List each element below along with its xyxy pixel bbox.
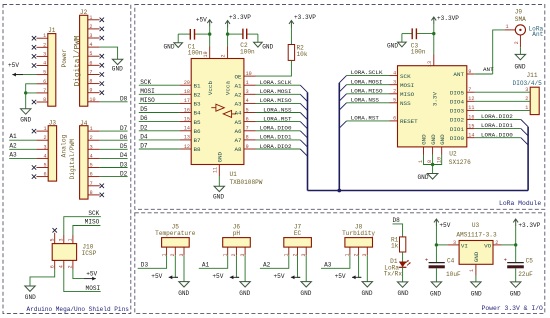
- svg-text:ANT: ANT: [483, 66, 494, 73]
- U2 pin SCK: [390, 75, 398, 77]
- svg-text:Arduino Mega/Uno Shield Pins: Arduino Mega/Uno Shield Pins: [27, 306, 130, 313]
- svg-text:DIO1: DIO1: [450, 126, 465, 133]
- J10 pin 5 stub: [54, 233, 56, 244]
- svg-text:B8: B8: [194, 146, 202, 153]
- wire U3 GND to ground: [475, 276, 477, 282]
- svg-text:B6: B6: [194, 128, 202, 135]
- svg-text:7: 7: [468, 87, 471, 93]
- svg-text:A5: A5: [235, 119, 243, 126]
- J1 pin 3: [37, 55, 48, 57]
- svg-text:LORA.MISO: LORA.MISO: [351, 87, 383, 94]
- U1 pin OE: [244, 75, 256, 77]
- svg-text:Temperature: Temperature: [155, 230, 196, 237]
- svg-text:2: 2: [221, 54, 227, 57]
- svg-text:8: 8: [90, 190, 93, 196]
- svg-text:B5: B5: [194, 119, 202, 126]
- svg-text:7: 7: [246, 126, 249, 132]
- svg-text:15: 15: [468, 123, 474, 129]
- svg-text:3: 3: [43, 51, 46, 57]
- ground (J10 pin6): [25, 286, 35, 291]
- svg-text:13: 13: [427, 61, 433, 67]
- svg-text:GND: GND: [421, 134, 428, 145]
- wire J5 pin2 to +5V: [175, 255, 178, 277]
- svg-text:11: 11: [212, 167, 218, 173]
- svg-text:SX1276: SX1276: [449, 159, 471, 166]
- svg-text:3: 3: [89, 33, 92, 39]
- wire J4 pin 1 net D7: [100, 130, 128, 132]
- wire U2 LORA.DIO1: [475, 128, 521, 130]
- bus entry LORA.DIO1: [521, 129, 528, 136]
- svg-text:+3.3VP: +3.3VP: [518, 222, 540, 229]
- U2 pin DIO0: [467, 137, 475, 139]
- bus entry LORA.MISO (U2 side): [339, 94, 346, 101]
- wire +3.3VP to VCCA: [227, 28, 229, 47]
- svg-text:3: 3: [525, 87, 528, 93]
- connector J10 ICSP: [52, 244, 76, 261]
- svg-text:D7: D7: [140, 143, 148, 150]
- wire J8 pin1 net A3: [321, 255, 350, 268]
- no-connect J1 pin 3: [32, 54, 36, 58]
- U2 pin DIO2: [467, 119, 475, 121]
- svg-text:17: 17: [184, 98, 190, 104]
- J1 pin 8: [37, 101, 48, 103]
- svg-text:GND: GND: [430, 134, 437, 145]
- section box: LoRa Module: [135, 5, 545, 210]
- svg-text:Turbidity: Turbidity: [342, 230, 375, 237]
- svg-text:22uF: 22uF: [518, 271, 533, 278]
- U2 pin GND 10: [441, 147, 443, 155]
- J4 pin 7: [88, 185, 100, 187]
- svg-text:ANT: ANT: [453, 71, 464, 78]
- wire J4 pin 5 net D3: [100, 167, 128, 169]
- svg-text:GND: GND: [178, 290, 189, 297]
- wire U1 A5 net LORA.RST: [256, 121, 301, 123]
- U2 pin DIO3: [467, 109, 475, 111]
- svg-text:DIO5: DIO5: [450, 89, 465, 96]
- svg-text:D5: D5: [120, 143, 128, 150]
- J1 pin 4: [37, 65, 48, 67]
- ground (C4): [431, 282, 441, 287]
- bus junction: [337, 189, 341, 193]
- J1 pin 1: [37, 37, 48, 39]
- svg-text:D2: D2: [140, 124, 148, 131]
- svg-text:DIO0: DIO0: [450, 135, 465, 142]
- svg-text:VI: VI: [461, 243, 468, 250]
- wire J5 pin1 net D3: [138, 255, 167, 268]
- svg-text:5: 5: [90, 163, 93, 169]
- bus entry LORA.MOSI (U2 side): [339, 85, 346, 92]
- svg-text:GND: GND: [418, 174, 429, 181]
- svg-text:A2: A2: [263, 262, 271, 269]
- power +3.3VP (R2): [289, 21, 294, 28]
- capacitor C2: [228, 33, 243, 35]
- svg-text:GND: GND: [362, 290, 373, 297]
- svg-text:+5V: +5V: [274, 273, 285, 280]
- svg-text:2: 2: [525, 96, 528, 102]
- J3 pin 6: [36, 176, 48, 178]
- wire J1 pin5 to +5V: [15, 74, 37, 76]
- U1 pin B1: [180, 84, 192, 86]
- J2 pin 4: [88, 46, 100, 48]
- connector J5 Temperature: [162, 238, 190, 248]
- svg-text:MISO: MISO: [85, 219, 100, 226]
- svg-text:A2: A2: [9, 142, 17, 149]
- svg-text:4: 4: [393, 70, 396, 76]
- svg-text:Tx/Rx: Tx/Rx: [384, 270, 403, 277]
- bus entry LORA.MISO (U1 side): [300, 103, 307, 110]
- wire U2 ANT to J9: [475, 73, 493, 75]
- svg-text:D8: D8: [393, 217, 401, 224]
- bus entry LORA.DIO1 (U1 side): [300, 140, 307, 147]
- bus entry LORA.DIO0 (U1 side): [300, 131, 307, 138]
- J2 pin 8: [88, 83, 100, 85]
- U1 pin B7: [180, 139, 192, 141]
- hierarchical label +5V (J6): [230, 276, 239, 278]
- svg-text:20: 20: [184, 80, 190, 86]
- svg-text:+5V: +5V: [212, 273, 223, 280]
- U1 pin B6: [180, 130, 192, 132]
- J2 pin 7: [88, 74, 100, 76]
- svg-text:8: 8: [43, 97, 46, 103]
- svg-text:Digital/PWM: Digital/PWM: [69, 139, 76, 180]
- J7 pin 3: [305, 247, 307, 255]
- no-connect J3 pin 6: [32, 174, 36, 178]
- no-connect J1 pin 8: [32, 100, 36, 104]
- svg-text:10: 10: [89, 97, 95, 103]
- svg-text:Analog: Analog: [61, 134, 68, 157]
- bus entry LORA.SCLK (U2 side): [339, 76, 346, 83]
- ground (C3): [398, 42, 407, 47]
- bus horizontal bottom: [308, 190, 529, 192]
- svg-text:1: 1: [68, 238, 74, 241]
- level shifter U1: [191, 59, 244, 165]
- svg-text:LORA.RST: LORA.RST: [263, 115, 292, 122]
- wire J8 pin2 to +5V: [359, 255, 362, 277]
- svg-text:A7: A7: [235, 137, 243, 144]
- svg-text:4: 4: [59, 265, 65, 268]
- svg-text:LORA.SCLK: LORA.SCLK: [351, 69, 383, 76]
- svg-text:+5V: +5V: [335, 273, 346, 280]
- svg-text:SCK: SCK: [400, 73, 411, 80]
- wire J5 pin3 to ground: [183, 255, 185, 281]
- ground (J2 pin4): [112, 59, 122, 64]
- wire J6 pin1 net A1: [199, 255, 228, 268]
- wire J1 pin7 to GND: [26, 93, 37, 109]
- svg-text:2: 2: [90, 135, 93, 141]
- U1 pin A8: [244, 148, 256, 150]
- power +5V (U3): [434, 219, 439, 226]
- U1 pin A3: [244, 102, 256, 104]
- U2 pin RESET: [390, 120, 398, 122]
- svg-text:GND: GND: [398, 290, 409, 297]
- svg-text:6: 6: [44, 172, 47, 178]
- no-connect J1 pin 2: [32, 45, 36, 49]
- J1 pin 2: [37, 46, 48, 48]
- no-connect J3 pin 5: [32, 165, 36, 169]
- svg-text:16: 16: [184, 107, 190, 113]
- svg-text:MOSI: MOSI: [86, 285, 101, 292]
- junction C4: [435, 243, 438, 246]
- svg-text:B4: B4: [194, 110, 202, 117]
- junction C5: [514, 243, 517, 246]
- svg-text:2: 2: [43, 42, 46, 48]
- svg-text:Ant: Ant: [532, 31, 543, 38]
- U2 pin ANT: [467, 73, 475, 75]
- svg-text:D4: D4: [120, 152, 128, 159]
- svg-text:3: 3: [393, 80, 396, 86]
- U2 pin GND 8: [432, 147, 434, 155]
- svg-text:GND: GND: [25, 294, 36, 301]
- connector J6 pH: [223, 238, 251, 248]
- section box: Power 3.3V & I/O: [135, 213, 545, 314]
- svg-text:A1: A1: [202, 262, 210, 269]
- svg-text:100n: 100n: [188, 50, 203, 57]
- wire net D7 to U1 B8: [139, 148, 180, 150]
- J4 pin 8: [88, 194, 100, 196]
- connector J2: [80, 15, 88, 106]
- no-connect J2 pin 2: [100, 27, 104, 31]
- svg-text:MISO: MISO: [140, 97, 155, 104]
- svg-text:A3: A3: [235, 101, 243, 108]
- U3 pin VO: [493, 244, 502, 246]
- svg-text:RESET: RESET: [400, 118, 418, 125]
- wire C4 to ground: [435, 268, 437, 282]
- svg-text:+5V: +5V: [196, 17, 207, 24]
- wire J2 pin4 to GND: [100, 47, 118, 59]
- J2 pin 9: [88, 92, 100, 94]
- svg-text:10k: 10k: [297, 51, 308, 58]
- wire J9 pin2 to ground: [519, 47, 521, 54]
- svg-text:J9: J9: [515, 9, 523, 16]
- svg-text:+5V: +5V: [151, 273, 162, 280]
- svg-text:A6: A6: [235, 128, 243, 135]
- ground (J6): [240, 282, 250, 287]
- svg-text:LORA.DIO0: LORA.DIO0: [260, 125, 292, 132]
- svg-text:1: 1: [90, 126, 93, 132]
- power +5V (U1 VCCB): [207, 20, 212, 27]
- wire C4 top: [435, 245, 437, 263]
- J1 pin 7: [37, 92, 48, 94]
- svg-text:DIO3: DIO3: [450, 108, 465, 115]
- svg-text:GND: GND: [112, 66, 123, 73]
- no-connect J10 pin5: [53, 228, 57, 232]
- wire J2 pin10 to D8: [100, 101, 128, 103]
- hierarchical label +5V (J5): [169, 276, 178, 278]
- svg-text:1: 1: [505, 24, 508, 30]
- svg-text:8: 8: [89, 79, 92, 85]
- svg-text:U2: U2: [449, 151, 457, 158]
- no-connect J4 pin 8: [100, 193, 104, 197]
- svg-text:1: 1: [89, 15, 92, 21]
- bus vertical (U2 left side): [338, 83, 340, 191]
- svg-text:9: 9: [468, 69, 471, 75]
- wire net LORA.RST to U2 RESET: [347, 120, 390, 122]
- J11 pin 1: [475, 109, 530, 111]
- bus vertical (U1 side): [307, 92, 309, 190]
- J4 pin 4: [88, 157, 100, 159]
- wire U1 GND pin to ground: [218, 176, 220, 186]
- svg-text:+5V: +5V: [8, 62, 19, 69]
- capacitor C3: [402, 33, 412, 35]
- svg-text:LORA.MISO: LORA.MISO: [260, 97, 292, 104]
- J11 pin 2: [475, 100, 530, 102]
- svg-text:9: 9: [89, 88, 92, 94]
- bus vertical (right side): [527, 127, 529, 191]
- U1 pin A1: [244, 84, 256, 86]
- U3 pin GND: [475, 264, 477, 275]
- svg-text:1: 1: [469, 269, 475, 272]
- wire J4 pin 6 net D2: [100, 176, 128, 178]
- resistor R2: [288, 45, 294, 61]
- wire C3 to ground: [401, 34, 403, 43]
- svg-text:J11: J11: [527, 72, 538, 79]
- wire net D2 to U1 B6: [139, 130, 180, 132]
- J2 pin 6: [88, 64, 100, 66]
- ground (D1): [397, 282, 407, 287]
- U1 pin B2: [180, 93, 192, 95]
- bus entry LORA.DIO0: [521, 138, 528, 145]
- J4 pin 6: [88, 176, 100, 178]
- svg-text:9: 9: [246, 144, 249, 150]
- wire J4 pin 4 net D4: [100, 157, 128, 159]
- svg-text:Vcca: Vcca: [225, 81, 232, 96]
- ground (C2): [254, 42, 263, 47]
- wire C1 to ground: [177, 34, 179, 43]
- svg-text:3: 3: [44, 144, 47, 150]
- junction J1 pins 6-7: [24, 91, 27, 94]
- U1 pin B8: [180, 148, 192, 150]
- svg-text:4: 4: [246, 98, 249, 104]
- svg-text:J2: J2: [80, 9, 88, 16]
- power +3.3VP (U1 VCCA): [225, 21, 230, 28]
- J6 pin 3: [244, 247, 246, 255]
- J3 pin 3: [36, 148, 48, 150]
- svg-text:6: 6: [43, 79, 46, 85]
- svg-text:LORA.DIO1: LORA.DIO1: [260, 134, 292, 141]
- wire J7 pin3 to ground: [305, 255, 307, 281]
- svg-text:15: 15: [184, 116, 190, 122]
- wire U1 A2 net LORA.MOSI: [256, 93, 301, 95]
- svg-text:14: 14: [184, 126, 190, 132]
- svg-text:6: 6: [393, 116, 396, 122]
- svg-text:1: 1: [44, 126, 47, 132]
- hierarchical label +5V (J1): [12, 74, 23, 76]
- U2 pin MISO: [390, 93, 398, 95]
- svg-text:EC: EC: [294, 230, 302, 237]
- svg-text:D5: D5: [140, 106, 148, 113]
- J1 pin 5: [37, 74, 48, 76]
- wire +5V to VCCB: [209, 27, 211, 47]
- wire U1 A8 net LORA.DIO2: [256, 148, 301, 150]
- svg-text:pH: pH: [233, 230, 241, 237]
- wire J3 pin 4 net A3: [9, 157, 36, 159]
- J8 pin 3: [366, 247, 368, 255]
- svg-text:D7: D7: [120, 125, 128, 132]
- wire net LORA.NSS to U2 NSS: [347, 102, 390, 104]
- svg-text:3.3V: 3.3V: [432, 92, 439, 107]
- no-connect J2 pin 8: [100, 81, 104, 85]
- svg-text:GND: GND: [430, 290, 441, 297]
- svg-text:2: 2: [393, 89, 396, 95]
- U1 pin A5: [244, 121, 256, 123]
- wire J6 pin3 to ground: [244, 255, 246, 281]
- no-connect J2 pin 7: [100, 72, 104, 76]
- svg-text:A8: A8: [235, 146, 243, 153]
- wire R1 to D1: [402, 252, 404, 262]
- wire net SCK to U1 B1: [139, 84, 180, 86]
- wire C5 to ground: [515, 268, 517, 282]
- wire J6 pin2 to +5V: [236, 255, 239, 277]
- no-connect J2 pin 3: [100, 36, 104, 40]
- svg-text:4: 4: [90, 153, 93, 159]
- bus entry LORA.SCLK (U1 side): [300, 85, 307, 92]
- J11 pin 3: [475, 91, 530, 93]
- J2 pin 10: [88, 101, 100, 103]
- wire J7 pin2 to +5V: [298, 255, 301, 277]
- svg-text:TXB0108PW: TXB0108PW: [230, 179, 263, 186]
- U1 buffer symbol: [216, 104, 232, 117]
- svg-text:Digital/PWM: Digital/PWM: [74, 35, 82, 86]
- wire net D6 to U1 B5: [139, 121, 180, 123]
- junction VCCA/C2: [226, 32, 229, 35]
- svg-text:Power: Power: [61, 49, 68, 68]
- svg-text:2: 2: [44, 135, 47, 141]
- ground (J5): [179, 282, 189, 287]
- svg-text:LORA.MOSI: LORA.MOSI: [351, 78, 383, 85]
- wire U2 LORA.DIO0: [475, 137, 521, 139]
- svg-text:LORA.DIO2: LORA.DIO2: [481, 113, 513, 120]
- U2 pin DIO4: [467, 100, 475, 102]
- ground (C5): [511, 282, 521, 287]
- svg-text:19: 19: [203, 51, 209, 57]
- wire +3.3VP to U3 VO: [515, 226, 517, 245]
- svg-text:3: 3: [90, 144, 93, 150]
- svg-text:DIO3/4/5: DIO3/4/5: [513, 80, 543, 87]
- svg-text:VO: VO: [484, 243, 492, 250]
- J6 pin 2: [235, 247, 237, 255]
- svg-text:SCK: SCK: [140, 79, 151, 86]
- no-connect J2 pin 9: [100, 91, 104, 95]
- svg-text:A4: A4: [235, 110, 243, 117]
- ground (J7): [301, 282, 311, 287]
- section box: Arduino Mega/Uno Shield Pins: [3, 5, 131, 314]
- svg-text:+3.3VP: +3.3VP: [229, 14, 251, 21]
- svg-text:12: 12: [468, 96, 474, 102]
- no-connect J3 pin 1: [32, 129, 36, 133]
- svg-text:LORA.DIO0: LORA.DIO0: [481, 131, 513, 138]
- svg-text:1: 1: [525, 105, 528, 111]
- J5 pin 2: [174, 247, 176, 255]
- svg-text:5: 5: [50, 238, 56, 241]
- U1 pin GND: [218, 165, 220, 177]
- svg-text:7: 7: [90, 181, 93, 187]
- U1 pin B5: [180, 121, 192, 123]
- svg-text:SMA: SMA: [515, 16, 526, 23]
- power +3.3VP (U3 output): [513, 219, 518, 226]
- wire net LORA.MOSI to U2 MOSI: [347, 84, 390, 86]
- wire U1 A1 net LORA.SCLK: [256, 84, 301, 86]
- svg-text:Vccb: Vccb: [207, 81, 214, 96]
- svg-text:4: 4: [89, 42, 92, 48]
- svg-text:GND: GND: [262, 43, 273, 50]
- bus entry LORA.MOSI (U1 side): [300, 94, 307, 101]
- junction U2 GND: [431, 163, 434, 166]
- svg-text:A1: A1: [235, 82, 243, 89]
- svg-text:2: 2: [495, 240, 498, 246]
- svg-text:2: 2: [89, 24, 92, 30]
- bus entry LORA.DIO2 (U1 side): [300, 149, 307, 156]
- J3 pin 1: [36, 130, 48, 132]
